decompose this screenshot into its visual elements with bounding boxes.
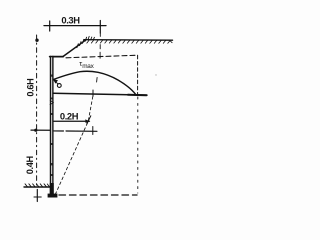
- dimension 0.3H right tick: [99, 21, 101, 34]
- berm level line at wall top: [50, 56, 64, 58]
- dashed top of simplified pressure diagram: [66, 55, 138, 58]
- dot at ground level: [35, 39, 38, 42]
- svg-text:0.4H: 0.4H: [25, 155, 35, 174]
- wall left line: [49, 56, 51, 194]
- wall foot flange: [48, 194, 58, 198]
- dimension 0.2H line: [54, 120, 90, 122]
- excavation ground line left: [24, 186, 50, 188]
- ground surface right: [84, 39, 173, 42]
- wall dark blobs: [50, 75, 53, 177]
- dimension 0.3H line: [44, 25, 106, 27]
- wall right line: [52, 56, 54, 194]
- dot at dredge level: [34, 129, 37, 132]
- dredge line end tick: [92, 127, 94, 135]
- berm slope line: [63, 40, 86, 57]
- paper speck: [155, 74, 156, 75]
- berm slope hatch: [77, 36, 94, 47]
- dimension 0.2H arrowhead: [85, 119, 90, 123]
- dotted right side below baseline: [137, 97, 139, 193]
- anchor circle: [57, 84, 61, 88]
- baseline darker right segment: [128, 94, 147, 96]
- svg-text:0.6H: 0.6H: [26, 78, 36, 97]
- wall joint mark: [50, 100, 53, 104]
- bottom cross vertical: [36, 190, 38, 202]
- anchor leader: [55, 82, 57, 84]
- wall dark lower part: [50, 183, 54, 195]
- bottom cross tick: [34, 196, 41, 198]
- svg-text:0.2H: 0.2H: [60, 110, 79, 121]
- dredge level line right of wall: [54, 130, 97, 132]
- tick where diagonal meets baseline: [92, 90, 94, 96]
- excavation ground hatch: [25, 184, 50, 187]
- pressure baseline: [53, 93, 147, 95]
- dashed diagonal to wall foot: [55, 97, 93, 196]
- left dimension dash-dot line: [36, 35, 38, 188]
- ground line end tail: [171, 41, 173, 43]
- svg-text:0.3H: 0.3H: [61, 15, 80, 26]
- dimension 0.3H left tick: [49, 21, 51, 31]
- anchor arrowhead: [54, 80, 58, 83]
- wall web gray fill: [51, 57, 53, 184]
- dashed right side of simplified pressure diagram: [137, 55, 139, 94]
- dredge level line left of wall: [31, 129, 50, 131]
- dashed vertical from 0.3H tick to pressure top: [99, 33, 101, 58]
- tick under curve: [96, 78, 99, 83]
- pressure curve: [53, 71, 136, 95]
- dimension 0.2H end tick: [87, 116, 91, 124]
- bottom dashed line: [59, 194, 137, 196]
- svg-text:max: max: [82, 63, 94, 70]
- ground hatch right: [87, 40, 170, 43]
